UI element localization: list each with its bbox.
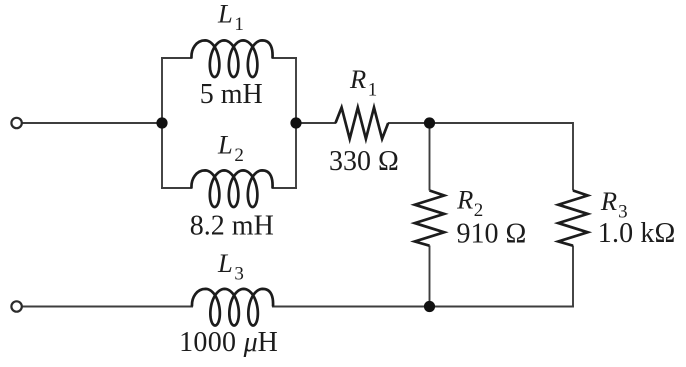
wire R2 bottom lead [429,246,431,308]
inductor L3 [192,289,273,326]
wire node B to R1 [296,122,336,124]
wire left vertical of parallel LC section [161,58,163,188]
wire node D to L3 [272,306,430,308]
svg-text:1.0 kΩ: 1.0 kΩ [598,218,676,249]
wire R3 bottom lead [572,246,574,308]
wire right vertical of parallel LC section [295,58,297,188]
node B [290,117,301,128]
inductor L2 [191,170,272,207]
resistor R2 [415,191,444,246]
wire R1 to node C [388,122,430,124]
terminal bottom-left [11,301,21,311]
wire top-left terminal to node A [22,122,162,124]
svg-text:5 mH: 5 mH [200,79,263,110]
wire R2 top lead [429,122,431,191]
wire L1 branch left lead [161,57,193,59]
terminal top-left [11,118,21,128]
node A [156,117,167,128]
svg-text:910 Ω: 910 Ω [457,219,527,250]
wire R3 top lead [572,122,574,191]
wire L3 to bottom-left terminal [22,306,193,308]
node C [424,117,435,128]
inductor L1 [191,40,272,77]
svg-text:330 Ω: 330 Ω [329,146,399,177]
svg-text:8.2 mH: 8.2 mH [190,210,274,241]
wire node C to top-right corner [430,122,574,124]
svg-text:1000 μH: 1000 μH [179,327,278,358]
wire L1 branch right lead [272,57,298,59]
node D [424,301,435,312]
resistor R3 [558,191,587,246]
wire L2 branch right lead [272,187,298,189]
wire L2 branch left lead [161,187,193,189]
wire bottom-right corner to node D [430,306,574,308]
resistor R1 [336,108,389,139]
